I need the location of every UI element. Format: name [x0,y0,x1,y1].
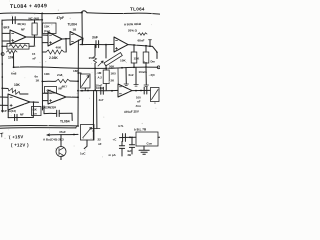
wiper arrow [98,61,103,66]
U2A signs [71,34,73,41]
wire jog to right edge [150,46,157,58]
resistor 2.04K zigzag [46,50,66,54]
resistor 10K diagonal zigzag [8,88,20,94]
divider line lower [0,127,76,130]
trimmer pot box lower mid [81,125,95,141]
resistor 4K7 zigzag [56,79,70,82]
ground lead below box [143,146,145,150]
wiper arrow inside trimmer [83,127,92,137]
svg-text:100nF: 100nF [96,86,104,90]
wire rail to pot [78,73,81,74]
wire vertical x118 bias chain [117,69,119,84]
electrolytic cap C9 plates [129,145,134,148]
svg-text:22: 22 [98,138,102,142]
wire U4 output [30,101,39,103]
svg-text:4K7: 4K7 [62,85,68,89]
15K zigzag body [94,56,97,64]
svg-text:10K: 10K [14,83,21,87]
svg-text:4n7: 4n7 [99,98,104,102]
capacitor C4 bars [144,87,147,94]
node dot rail x78 at bus y90 [77,90,79,92]
svg-text:Dm: Dm [151,60,156,64]
node dots on left rail [1,23,3,25]
svg-text:15: 15 [32,52,36,56]
output jack circle [157,66,160,69]
Q1 internal bar [58,149,60,155]
node dot output U1A [34,36,36,38]
wire output down to cap wire [32,102,34,117]
node dot [131,137,133,139]
arrowhead left [47,134,50,136]
svg-text:10K: 10K [120,59,126,63]
electrolytic cap lead x132 [131,137,133,144]
node dot [65,38,67,40]
node dots on right bus [121,67,123,69]
node dots [135,90,137,92]
wire zigzag to x78 rail [70,80,78,82]
vertical pair down from bus y90 [92,91,94,132]
wire from zigzag to op-amp input [20,93,28,95]
node dot [1,45,3,47]
node dot [77,72,79,74]
pot bottom lead [84,88,86,91]
electrolytic cap lead x122 [121,141,123,145]
capacitor C5 bars [57,110,60,116]
node dot [133,44,135,46]
node dot [105,67,107,69]
svg-text:A 500k 40kΩ: A 500k 40kΩ [124,22,142,27]
ground ticks [124,84,129,86]
node dot [93,130,95,132]
node dot [73,134,75,136]
svg-text:nF: nF [33,57,37,61]
svg-text:t: t [155,101,156,105]
resistor box on x146 [145,46,147,52]
node dot [129,136,131,138]
wire stub x44 up [43,106,45,114]
node dot [33,101,35,103]
svg-text:TL064: TL064 [60,120,70,124]
svg-text:1uC: 1uC [80,152,86,156]
svg-text:2n: 2n [144,61,148,65]
feedback resistor box with zigzag [7,44,29,50]
wire U1B +input [42,42,48,44]
svg-text:TL084 + 4049: TL084 + 4049 [10,3,47,10]
svg-text:40(1k): 40(1k) [17,22,26,26]
U4 signs [10,97,12,106]
wire pair bottom connect [92,131,94,140]
svg-text:2(0: 2(0 [151,73,155,77]
wire bottom right y137 [120,136,137,138]
small box Cd [45,87,57,94]
left ground rail (vertical) [1,20,3,112]
wire U3B output [132,89,150,91]
op-amp U3A [114,37,128,52]
capacitor C2 bars [96,41,99,48]
svg-text:nF: nF [98,142,102,146]
U1B signs [50,35,52,43]
wire from U1A output down to feedback box [29,37,35,46]
wire U2B +input [43,100,49,102]
divider line upper [0,124,77,127]
svg-text:( +12V ): ( +12V ) [11,143,29,148]
wire vertical x66 to zigzag [65,39,67,52]
wire U4 -input [0,96,8,98]
C8 lower lead [121,148,123,156]
tick on x150 top [149,39,152,41]
svg-text:b B.L 7B: b B.L 7B [134,127,147,131]
resistor 10K zigzag [7,50,18,53]
diagonal inside output box [152,90,159,100]
node dot [77,96,79,98]
node dot [41,19,43,21]
svg-text:TL064: TL064 [68,23,77,27]
node dot [41,66,43,68]
svg-text:2B: 2B [128,153,132,157]
svg-text:(1K: (1K [33,108,37,112]
resistor 1K5 vertical box [103,70,109,84]
svg-text:20% Ω: 20% Ω [128,29,138,33]
small zigzag sketch [138,33,147,35]
op-amp U4 (big, lower left) [8,94,30,110]
zigzag inside feedback box [9,45,27,48]
wire: lower bus y81 [42,80,56,82]
wire left at y88 [2,87,8,89]
wire stub x72 down [71,113,73,120]
svg-text:NF: NF [21,28,25,32]
U2B signs [50,93,52,101]
svg-text:10n/m: 10n/m [139,70,148,74]
trimmer stub below [84,140,87,149]
svg-text:.1M: .1M [97,71,102,75]
wire U1A -input [2,32,10,34]
Q1 collector/emitter strokes [59,148,64,156]
node dot [13,66,15,68]
U3A signs [116,40,118,49]
node dot [94,68,96,70]
wire zigzag to rail [42,51,46,53]
svg-text:40K: 40K [56,46,62,50]
svg-text:10K: 10K [44,72,50,76]
boxed label right [32,107,42,116]
op-amp U1B [48,32,62,46]
input jack circle [1,53,4,56]
node dot top rail x82 [81,12,83,14]
svg-text:15K: 15K [89,56,95,60]
wire U2A output down [81,38,84,44]
svg-text:47pF: 47pF [57,16,64,20]
verticals below right bus [125,68,127,84]
svg-text:2n8: 2n8 [57,73,63,77]
node dot [81,44,83,46]
vertical rail x78 [77,40,79,126]
wire hop (crossover bump) on top rail [81,11,87,13]
resistor R1 (vertical box) [32,23,37,35]
wire U1B -input [42,34,48,36]
svg-text:3nF: 3nF [92,36,98,40]
wire: bus y90 [80,89,118,91]
wire y134.5 with left arrow [47,133,78,136]
C9 lower lead [131,147,133,154]
boxed label 15K (1W) [43,23,57,34]
svg-text:1m: 1m [33,112,37,116]
op-amp U1A [10,30,26,44]
wire U1B output [62,38,70,40]
wire U1A output [26,36,42,38]
svg-text:6KP 4n(13): 6KP 4n(13) [1,109,16,113]
svg-text:1K5: 1K5 [111,72,117,76]
wire U3A output [128,45,150,47]
resistor box on x134 [133,45,135,52]
svg-text:m pA: m pA [109,153,117,157]
potentiometer box left-mid [81,74,91,88]
capacitor C7 bars [123,134,126,142]
svg-text:470uF 25V: 470uF 25V [124,109,139,114]
svg-text:nF: nF [137,100,141,104]
vertical rail x42 [41,13,44,110]
wire U1A +input [2,40,10,42]
capacitor C3 bars [101,87,104,94]
potentiometer 50K (slanted) [105,45,107,58]
box right output [151,88,160,102]
node dot [42,81,44,83]
capacitor C1 bars [13,17,16,24]
wire: mid horizontal bus y67 [14,67,112,69]
node dot [156,52,158,54]
wire y117 [8,116,33,118]
wire vertical x150 short [149,40,151,46]
paper speckles [4,1,156,158]
wire: bus y44 to U3A [80,43,114,45]
op-amp U3B [118,84,132,97]
op-amp U2B [48,90,66,104]
legend tick mark [1,133,4,137]
wire U4 +input [0,104,8,106]
node dots bus y90 [81,90,83,92]
vertical wire x82 from top rail [81,13,83,44]
wire feedback box to left rail [2,45,7,47]
svg-text:NF: NF [20,113,24,117]
svg-text:.7nn: .7nn [135,104,141,108]
capacitor C6 bars [15,114,17,120]
transistor Q1 circle [56,147,66,157]
Q1 emitter lead [60,157,62,161]
wire vertical into mid bus [13,54,15,68]
wire: right bus y67 [112,67,158,68]
U1A input signs [12,34,14,42]
svg-text:A 2: A 2 [98,76,103,80]
ground symbol [139,150,149,154]
electrolytic cap C8 plates [119,146,124,149]
resistor 15K vertical [94,45,96,56]
wire up from y117 to U4 [7,110,9,118]
node dot at x78 rail bottom [77,125,79,127]
svg-text:6n8: 6n8 [11,72,17,76]
node dot [145,45,147,47]
svg-text:6K8: 6K8 [3,25,9,29]
node dot [149,45,151,47]
wire U2B -input [42,92,48,94]
wire: upper-left node wire [2,19,42,21]
U3B signs [119,87,121,94]
node dot [1,87,3,89]
svg-text:6n2: 6n2 [129,73,134,77]
node dot [77,80,79,82]
divider end hook [76,126,78,128]
op-amp U2A [70,32,83,46]
wire: top rail right part [87,13,160,14]
svg-text:47uF: 47uF [59,130,66,134]
regulator box [136,132,158,146]
svg-text:68nF: 68nF [138,39,145,43]
node dot [105,44,107,46]
wire from bus down to transistor Q1 [60,135,62,147]
svg-text:TL064: TL064 [130,7,145,12]
pot diagonal [82,76,90,87]
svg-text:2.04K: 2.04K [49,56,58,60]
wire stubs of R1 [34,20,36,37]
wire U2B output [66,96,78,98]
svg-text:( +15V: ( +15V [9,134,24,139]
wire right of box [158,136,160,138]
svg-text:4.7L: 4.7L [118,124,124,128]
wire: long top supply rail [0,12,81,15]
wire y113 with cap [44,112,57,114]
svg-text:Con: Con [147,142,153,146]
node dot top rail x42 [41,13,43,15]
tick on pair [91,127,100,129]
